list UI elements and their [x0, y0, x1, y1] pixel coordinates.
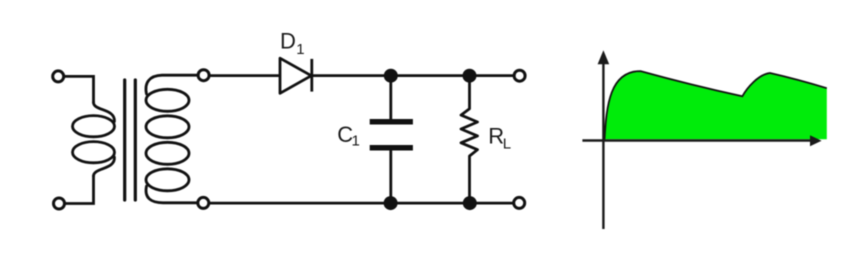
- svg-text:L: L: [503, 135, 511, 152]
- svg-text:1: 1: [352, 132, 360, 149]
- svg-text:R: R: [488, 123, 504, 148]
- svg-text:D: D: [280, 29, 296, 54]
- svg-text:1: 1: [296, 41, 304, 58]
